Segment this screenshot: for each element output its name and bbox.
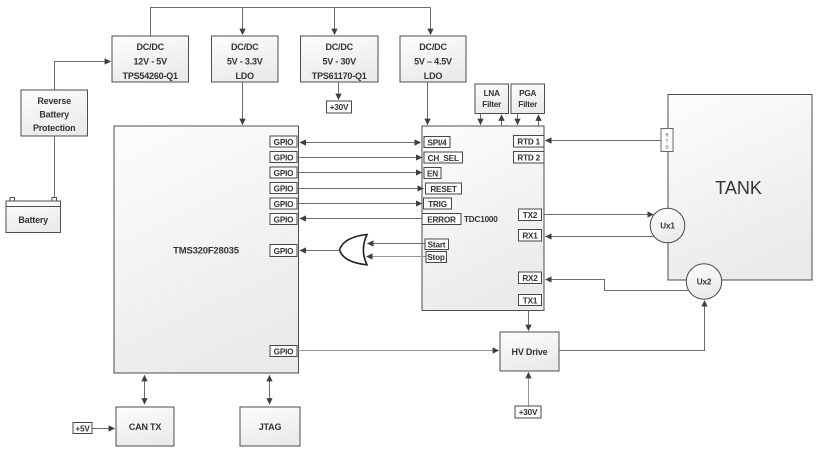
wire TDC to LNA (up) [501,115,503,126]
wire RTD connector to RTD 1 [546,140,662,142]
svg-text:TRIG: TRIG [428,200,447,209]
wire Stop to or-gate [367,256,426,258]
wire ERROR to GPIO [300,218,422,220]
pin label RX2 [519,272,542,284]
jtag block [240,407,300,446]
wire TRIG [298,203,422,205]
battery symbol [6,198,61,233]
transducer Ux1 [650,208,685,243]
pin label TRIG [424,198,452,209]
svg-text:DC/DC: DC/DC [325,42,353,52]
transducer Ux2 [686,264,721,299]
svg-text:DC/DC: DC/DC [136,42,164,52]
svg-text:DC/DC: DC/DC [231,42,259,52]
svg-text:RTD 1: RTD 1 [517,138,540,147]
rtd connector on tank wall [661,129,673,152]
wire HV Drive to Ux2 [559,301,705,351]
pin label RX1 [519,230,542,242]
svg-text:12V - 5V: 12V - 5V [133,57,167,67]
hv drive block [500,332,559,371]
pin label ERROR [422,214,461,225]
wire DC/DC 30V to +30V label [338,82,340,100]
svg-text:Ux1: Ux1 [660,222,675,231]
afe block TDC1000 [422,126,544,311]
svg-text:D: D [665,145,668,150]
wire TX1 to HV Drive [528,311,530,331]
svg-text:+30V: +30V [330,103,349,112]
svg-text:TPS61170-Q1: TPS61170-Q1 [312,71,367,81]
svg-text:TANK: TANK [715,178,762,198]
wire RESET [298,188,424,190]
wire TX2 to Ux1 [544,214,653,216]
svg-text:Battery: Battery [39,110,69,120]
pga filter block [511,84,545,114]
or gate (start/stop combine) [340,235,368,265]
pin label RTD 2 [514,152,545,164]
svg-text:GPIO: GPIO [274,247,295,256]
+5V supply label [73,423,92,434]
wire TDC to PGA (up) [538,115,540,126]
svg-text:GPIO: GPIO [274,200,295,209]
pin label RESET [426,183,462,194]
svg-text:LNA: LNA [484,89,501,98]
+30V supply label (top) [327,101,352,113]
svg-text:+5V: +5V [75,424,90,433]
svg-text:R: R [665,133,668,138]
pin label Start [425,239,449,250]
svg-text:Start: Start [428,240,446,249]
svg-text:CH_SEL: CH_SEL [428,154,459,163]
tank block [668,95,812,281]
wire CH_SEL [298,157,422,159]
wire battery to RBP [54,136,56,198]
pin label CH_SEL [424,152,463,163]
wire or-gate output to GPIO [300,250,340,252]
wire bus drop to DC/DC 5V-4.5V [430,8,432,35]
svg-text:5V - 30V: 5V - 30V [322,57,356,67]
svg-text:+30V: +30V [519,408,538,417]
svg-text:Filter: Filter [482,100,502,109]
svg-text:Stop: Stop [427,253,445,262]
lna filter block [475,84,509,114]
svg-text:5V - 3.3V: 5V - 3.3V [227,57,263,67]
wire LNA to TDC (down) [480,114,482,125]
gpio label row7 (or-gate input) [270,245,297,257]
wire bus drop to DC/DC 5V-3.3V [242,8,244,35]
svg-text:JTAG: JTAG [259,422,282,432]
svg-text:LDO: LDO [235,71,254,81]
wire DC/DC 4.5V to TDC1000 top [427,82,429,125]
dc/dc block 5V-30V TPS61170-Q1 [301,36,379,82]
reverse battery protection block [21,90,88,136]
svg-text:Reverse: Reverse [37,96,71,106]
svg-text:Protection: Protection [33,123,76,133]
svg-text:RX1: RX1 [522,232,538,241]
svg-text:DC/DC: DC/DC [419,42,447,52]
svg-text:GPIO: GPIO [274,169,295,178]
svg-text:GPIO: GPIO [274,138,295,147]
wire SPI/4 (bidirectional) [300,142,421,144]
wire bus drop to DC/DC 5V-30V [334,8,336,35]
pin label Stop [426,252,447,263]
pin label EN [424,168,441,179]
wire PGA to TDC (down) [517,114,519,125]
svg-text:TPS54260-Q1: TPS54260-Q1 [123,71,179,81]
svg-text:RTD 2: RTD 2 [517,154,540,163]
svg-text:RESET: RESET [430,185,456,194]
wire EN [298,172,422,174]
svg-text:TMS320F28035: TMS320F28035 [173,246,240,257]
svg-text:PGA: PGA [519,89,536,98]
svg-text:RX2: RX2 [522,274,538,283]
pin label RTD 1 [514,136,545,148]
pin label TX1 [519,295,542,306]
wire Start to or-gate [368,243,425,245]
dc/dc block 5V-3.3V LDO [212,36,279,82]
dc/dc block 5V-4.5V LDO [400,36,466,82]
svg-text:TDC1000: TDC1000 [464,215,498,224]
mcu block TMS320F28035 [114,126,299,373]
svg-text:LDO: LDO [424,71,443,81]
wire power bus from DC/DC U1 top [151,8,431,37]
svg-text:T: T [666,139,669,144]
svg-text:SPI/4: SPI/4 [427,138,447,147]
svg-text:Filter: Filter [518,100,538,109]
can tx block [116,407,174,446]
gpio label row8 (hv drive) [270,346,297,357]
wire TMS to JTAG (bidirectional) [269,375,271,404]
pin label TX2 [519,209,542,221]
svg-text:GPIO: GPIO [274,215,295,224]
wire DC/DC 3.3V to TMS top [242,82,244,125]
svg-text:GPIO: GPIO [274,153,295,162]
svg-text:TX1: TX1 [523,296,538,305]
wire GPIO row8 to HV Drive [298,350,499,352]
+30V supply label (bottom) [515,406,541,418]
svg-text:ERROR: ERROR [427,215,456,224]
svg-text:GPIO: GPIO [274,184,295,193]
wire Ux2 to RX2 [546,280,688,291]
gpio pin labels on TMS right edge [270,136,297,147]
pin label SPI/4 [424,137,450,148]
wire Ux1 to RX1 [546,236,654,238]
wire RBP to DC/DC U1 [55,62,111,91]
svg-text:HV Drive: HV Drive [512,347,548,357]
svg-text:5V – 4.5V: 5V – 4.5V [414,57,452,67]
wire +30V to HV Drive [528,372,530,406]
wire +5V to CAN TX [92,428,115,430]
svg-text:TX2: TX2 [523,211,538,220]
svg-text:CAN TX: CAN TX [129,422,161,432]
svg-text:EN: EN [427,169,438,178]
svg-text:Ux2: Ux2 [697,278,712,287]
svg-text:Battery: Battery [18,215,48,225]
svg-text:GPIO: GPIO [274,347,295,356]
dc/dc converter block 12V-5V TPS54260-Q1 [112,36,189,82]
wire TMS to CAN TX (bidirectional) [144,375,146,404]
